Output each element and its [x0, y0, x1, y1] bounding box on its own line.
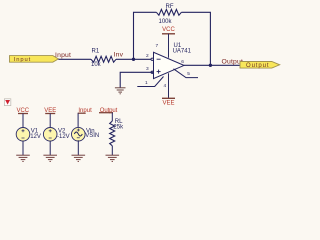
- power port VCC (op-amp): [162, 27, 175, 34]
- svg-text:Output: Output: [246, 63, 269, 69]
- power port VCC (bottom): [16, 108, 29, 114]
- net label Input: [55, 52, 71, 59]
- port Input: [10, 56, 59, 63]
- svg-text:Input: Input: [55, 52, 71, 59]
- svg-text:7: 7: [156, 43, 159, 49]
- svg-text:VCC: VCC: [162, 27, 175, 33]
- pin number 1: [145, 80, 148, 86]
- svg-text:5: 5: [187, 71, 190, 77]
- wire RL to ground: [111, 146, 113, 155]
- ground (RL): [106, 155, 120, 161]
- wire VCC to V1: [22, 114, 24, 128]
- pin number 5: [187, 71, 190, 77]
- svg-text:3: 3: [146, 66, 149, 72]
- power port VEE (bottom): [44, 108, 56, 114]
- svg-text:12V: 12V: [30, 134, 41, 140]
- resistor RF: [156, 4, 181, 25]
- wire Output port to RL: [111, 113, 113, 121]
- resistor RL: [110, 119, 124, 146]
- net label Inv: [114, 52, 124, 59]
- ground (V1): [16, 155, 30, 161]
- voltage source Vin (VSIN): [72, 127, 100, 141]
- junction at Inv node: [132, 58, 135, 61]
- pin 1 stub: [137, 77, 163, 87]
- svg-text:VEE: VEE: [162, 100, 174, 106]
- pin number 6: [181, 59, 184, 65]
- svg-text:6: 6: [181, 59, 184, 65]
- svg-text:R1: R1: [92, 49, 100, 55]
- op-amp U1: [151, 43, 192, 78]
- wire V2 to ground: [49, 141, 51, 155]
- wire pin 4 to VEE: [168, 73, 170, 98]
- wire feedback left vertical: [134, 12, 157, 59]
- svg-text:RF: RF: [166, 4, 174, 10]
- wire feedback right vertical to output node: [181, 12, 210, 65]
- pin number 3: [146, 66, 149, 72]
- wire R1 to op-amp pin 2: [116, 58, 154, 60]
- svg-text:10k: 10k: [91, 62, 102, 68]
- pin number 2: [146, 53, 149, 59]
- pin 5 stub: [174, 69, 199, 78]
- svg-text:2: 2: [146, 53, 149, 59]
- directive marker icon: [4, 99, 10, 106]
- ground (V2): [43, 155, 57, 161]
- net label Output: [222, 58, 244, 65]
- pin number 7: [156, 43, 159, 49]
- wire pin 3 to ground: [120, 72, 153, 87]
- ground (op-amp pin 3): [115, 88, 126, 94]
- ground (Vin): [72, 155, 86, 161]
- wire pin 6 to port Output: [184, 64, 240, 66]
- voltage source V1: [16, 128, 41, 142]
- junction at output node: [209, 64, 212, 67]
- wire VEE to V2: [49, 114, 51, 128]
- svg-text:Inv: Inv: [114, 52, 124, 59]
- power port VEE (op-amp): [162, 98, 175, 106]
- svg-text:VSIN: VSIN: [85, 133, 99, 139]
- wire V1 to ground: [22, 141, 24, 155]
- wire pin 7 to VCC: [168, 34, 170, 58]
- svg-text:UA741: UA741: [173, 49, 192, 55]
- power port Input (bottom): [78, 108, 92, 114]
- port Output: [240, 62, 280, 69]
- resistor R1: [91, 49, 116, 69]
- wire Vin to ground: [77, 140, 79, 155]
- wire port Input to R1: [58, 58, 91, 60]
- svg-text:-12V: -12V: [57, 134, 70, 140]
- svg-text:Input: Input: [14, 57, 31, 63]
- svg-text:1: 1: [145, 80, 148, 86]
- svg-text:25k: 25k: [113, 124, 124, 130]
- power port Output (bottom): [99, 108, 118, 114]
- voltage source V2: [43, 128, 69, 142]
- pin number 4: [164, 83, 167, 89]
- wire Input port to Vin: [77, 113, 79, 128]
- svg-text:100k: 100k: [159, 19, 173, 25]
- svg-text:4: 4: [164, 83, 167, 89]
